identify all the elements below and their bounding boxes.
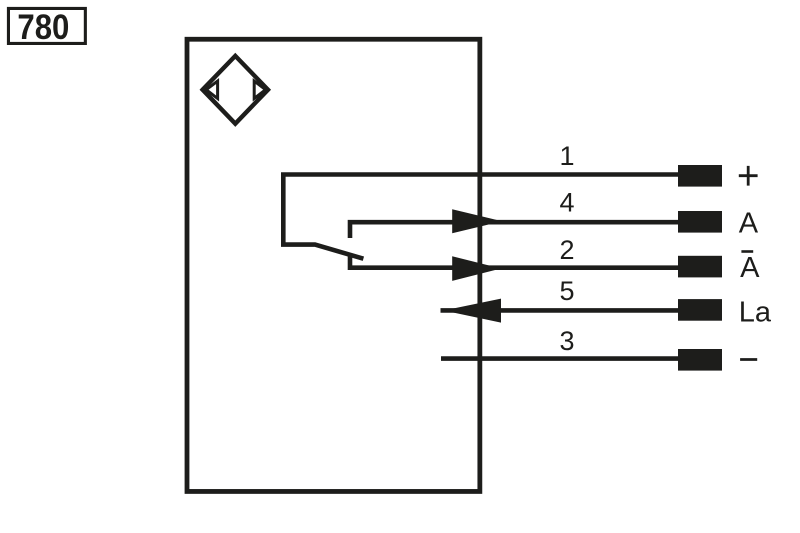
svg-text:5: 5: [559, 276, 574, 306]
svg-text:A: A: [739, 208, 759, 240]
svg-text:3: 3: [559, 326, 574, 356]
svg-text:La: La: [739, 296, 772, 328]
svg-text:4: 4: [559, 188, 574, 218]
svg-text:A: A: [740, 252, 760, 284]
svg-text:1: 1: [559, 141, 574, 171]
svg-text:2: 2: [559, 235, 574, 265]
svg-text:780: 780: [17, 8, 69, 47]
